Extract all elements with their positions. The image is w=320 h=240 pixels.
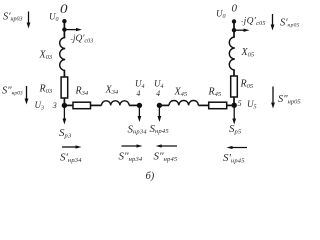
inductor X05 (229, 37, 235, 70)
inductor X45 (169, 101, 198, 106)
wire node0 to junction (63, 21, 65, 29)
arrow Snp34 down from node 4 left (138, 105, 142, 122)
node 0 right dot (232, 19, 236, 23)
wire X45 to R45 (198, 104, 208, 106)
inductor X03 (60, 38, 65, 71)
wire node0 right to junction (233, 22, 235, 31)
svg-text:0: 0 (232, 2, 238, 14)
node 4 right dot (157, 103, 162, 108)
wire R05 to node 5 (233, 97, 235, 105)
arrow S''np05 down (271, 87, 275, 109)
node 4 left dot (137, 103, 142, 108)
resistor R03 (61, 77, 68, 98)
arrow S'np03 down (27, 12, 31, 29)
arrow S''np03 down (25, 86, 29, 105)
wire coil to R03 (63, 71, 65, 78)
wire R45 to node 5 (227, 104, 235, 106)
wire coil to R05 (233, 70, 235, 76)
svg-text:5: 5 (238, 99, 242, 108)
resistor R34 (73, 102, 91, 109)
arrow S'np45 left (227, 146, 248, 149)
svg-text:4: 4 (136, 89, 140, 98)
svg-text:3: 3 (52, 101, 57, 110)
wire junction to coil X05 (233, 30, 235, 37)
arrow Snp45 down from node 4 right (158, 105, 162, 122)
svg-text:б): б) (146, 171, 155, 182)
wire R03 to node 3 (63, 98, 65, 105)
svg-text:4: 4 (156, 89, 160, 98)
arrow -jQ'c03 (64, 28, 82, 31)
junction dot Qc05 (232, 28, 236, 32)
arrow S'np05 down (271, 14, 275, 31)
node 3 dot (62, 103, 67, 108)
inductor X34 (102, 101, 130, 106)
svg-text:0: 0 (60, 2, 68, 16)
wire node 4 right to X45 (159, 104, 169, 106)
wire X34 to node 4 left (129, 104, 139, 106)
resistor R45 (209, 102, 227, 109)
wire R34 to X34 (91, 104, 102, 106)
arrow S'np34 right (62, 145, 82, 148)
node 5 dot (232, 103, 237, 108)
wire node3 to R34 (64, 104, 73, 106)
arrow Sp3 down from node 3 (63, 105, 67, 124)
arrow Sp5 down from node 5 (232, 105, 236, 124)
resistor R05 (231, 76, 238, 97)
wire junction to coil X03 (63, 30, 65, 38)
node 0 left junction dot (62, 19, 66, 23)
arrow S''np45 left (156, 144, 177, 147)
arrow S''np34 right (122, 144, 143, 147)
junction dot Qc03 (62, 27, 66, 31)
arrow -jQ'c05 (234, 29, 250, 32)
